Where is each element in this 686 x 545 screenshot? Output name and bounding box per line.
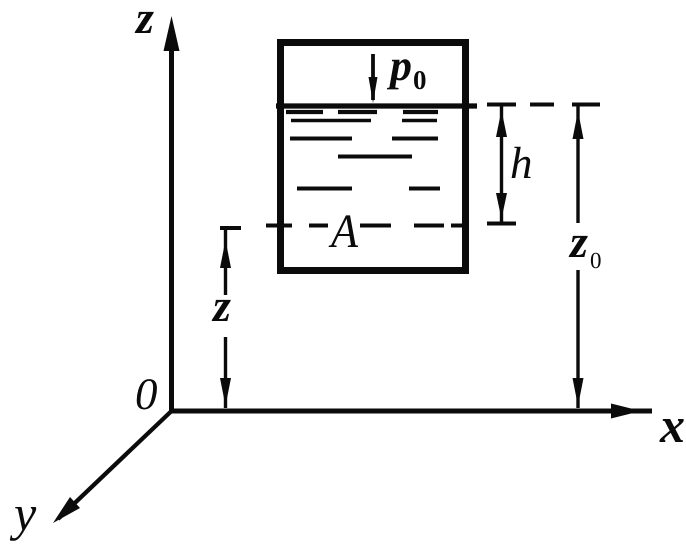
svg-text:0: 0 bbox=[590, 248, 602, 273]
svg-text:x: x bbox=[659, 397, 685, 453]
svg-text:z: z bbox=[134, 0, 154, 43]
svg-text:z: z bbox=[211, 280, 231, 331]
svg-text:0: 0 bbox=[413, 65, 427, 95]
svg-text:z: z bbox=[568, 216, 588, 267]
svg-text:y: y bbox=[9, 485, 37, 541]
svg-text:0: 0 bbox=[135, 369, 158, 419]
svg-text:h: h bbox=[510, 138, 533, 188]
svg-text:p: p bbox=[386, 41, 412, 90]
svg-text:A: A bbox=[328, 205, 358, 258]
